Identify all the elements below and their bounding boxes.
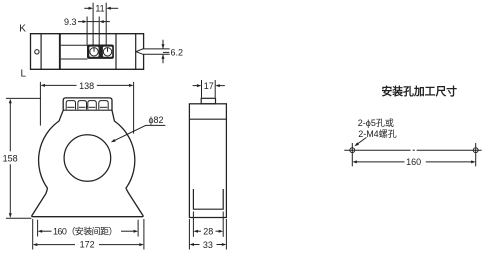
svg-text:9.3: 9.3 — [64, 17, 77, 27]
svg-text:158: 158 — [3, 154, 18, 164]
svg-text:2-ϕ5孔或: 2-ϕ5孔或 — [358, 117, 394, 128]
svg-text:33: 33 — [203, 240, 213, 250]
svg-text:安装孔加工尺寸: 安装孔加工尺寸 — [382, 84, 458, 98]
svg-text:160: 160 — [406, 157, 421, 167]
svg-text:ϕ82: ϕ82 — [148, 115, 163, 125]
svg-text:172: 172 — [80, 240, 95, 250]
svg-text:2-M4螺孔: 2-M4螺孔 — [358, 129, 397, 139]
svg-text:160（安装间距）: 160（安装间距） — [53, 226, 117, 237]
svg-text:11: 11 — [95, 4, 104, 14]
svg-text:28: 28 — [203, 227, 213, 237]
svg-text:K: K — [19, 24, 26, 35]
svg-text:138: 138 — [79, 81, 94, 91]
svg-text:17: 17 — [204, 81, 214, 91]
svg-text:6.2: 6.2 — [171, 48, 184, 58]
svg-text:L: L — [21, 68, 27, 79]
